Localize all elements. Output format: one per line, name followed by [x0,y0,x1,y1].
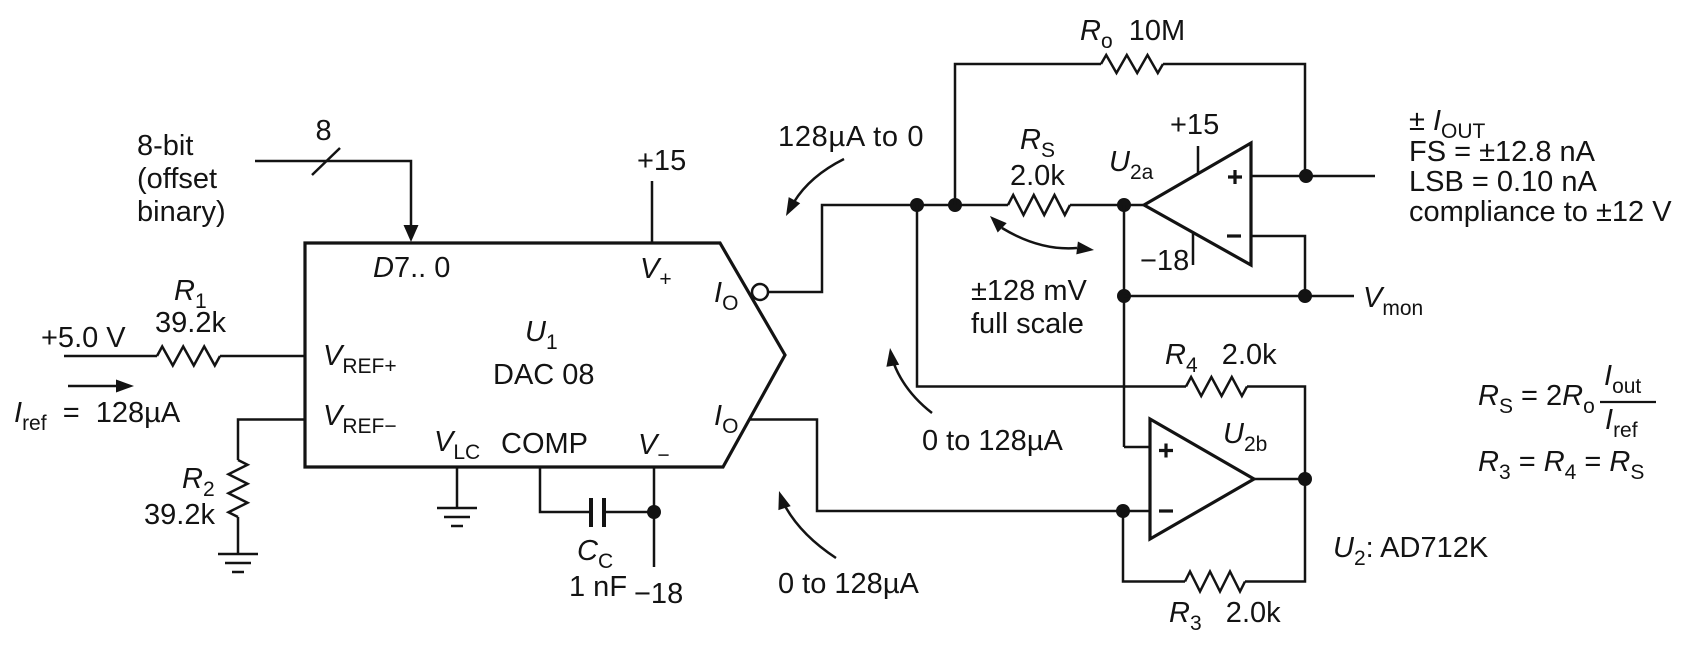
wire: Vmon vertical from U2a node [1124,205,1149,447]
op-amp U2b [1150,419,1254,539]
label R2 [182,463,215,501]
svg-text:full scale: full scale [971,308,1084,340]
ground (below VLC) [437,508,477,526]
pin label VREF- [323,400,397,438]
svg-text:39.2k: 39.2k [144,499,215,531]
junction: U2a inverting node [1117,198,1131,212]
svg-text:V+​: V+​ [640,253,672,291]
annotation arrow: 0 to 128uA (lower) [778,491,836,558]
wire: CC to V- node [606,511,654,514]
svg-text:−18: −18 [1140,245,1189,277]
svg-text:128µA to 0: 128µA to 0 [778,121,924,153]
wire: U2a + input to IOUT terminal [1251,175,1375,178]
svg-text:FS = ±12.8 nA: FS = ±12.8 nA [1409,136,1596,168]
wire: COMP pin to CC [540,467,589,512]
wire: VREF- pin to R2 [238,420,305,461]
label +/-128 mV [971,275,1088,307]
op-amp U2a (points left) [1144,143,1251,265]
pin label D7.. 0 [373,252,450,284]
resistor R1 39.2k [157,347,220,366]
wire: U2a - input to Vmon rail [1251,236,1305,296]
svg-text:+5.0 V: +5.0 V [41,322,126,354]
U2a + input marker [1228,170,1242,184]
resistor R2 39.2k [229,460,248,517]
label U1 [525,316,558,354]
wire: RS to U2a inverting node [1070,204,1143,207]
svg-text:IO​: IO​ [714,277,738,315]
wire: IO lower to U2b inverting input [749,420,1150,512]
wire: VLC pin to ground [456,467,459,508]
U2a -18 supply pin [1192,233,1195,265]
label Ro 10M [1080,15,1185,53]
pin label IO (lower) [714,400,738,438]
label full scale [971,308,1084,340]
label U2a [1109,146,1154,184]
svg-text:LSB = 0.10 nA: LSB = 0.10 nA [1409,166,1597,198]
svg-text:R3​ = R4​ = RS​: R3​ = R4​ = RS​ [1478,446,1644,484]
wire: Ro feedback branch (right) [1163,64,1305,176]
label Iref = 128uA [14,397,181,435]
svg-text:U1​: U1​ [525,316,558,354]
DAC U1 body (pentagon) [305,243,785,467]
svg-text:±128 mV: ±128 mV [971,275,1088,307]
label LSB = 0.10 nA [1409,166,1597,198]
svg-text:DAC 08: DAC 08 [493,359,595,391]
label Vmon [1363,282,1423,320]
svg-text:Ro​ 10M: Ro​ 10M [1080,15,1185,53]
label RS [1020,124,1055,162]
ground (below R2) [218,554,258,572]
svg-text:8-bit: 8-bit [137,130,193,162]
resistor RS 2.0k [1008,195,1070,215]
wire: IO upper to summing node [768,205,1008,292]
wire: U2b output [1254,478,1305,481]
junction: U2b inverting node [1116,504,1130,518]
label DAC 08 [493,359,595,391]
junction: U2b output node [1298,472,1312,486]
svg-text:+15: +15 [1170,109,1219,141]
pin label V+ [640,253,672,291]
label U2b [1223,418,1267,456]
label -18 (V- supply) [634,578,683,610]
label -18 (U2a) [1140,245,1189,277]
annotation arrow: 0 to 128uA (upper) [886,348,932,413]
label: +5.0 V [41,322,126,354]
label 1 nF [569,571,627,603]
U2a - input marker [1227,234,1241,237]
wire: node A to R4 [917,205,1186,387]
svg-text:R4​ 2.0k: R4​ 2.0k [1165,339,1277,377]
wire: V- pin to -18 supply [653,467,656,567]
junction: Ro/output node [1299,169,1313,183]
svg-text:VREF−​: VREF−​ [323,400,397,438]
svg-text:IO​: IO​ [714,400,738,438]
svg-text:R2​: R2​ [182,463,215,501]
label 2.0k (RS) [1010,160,1065,192]
annotation arrow: 128uA to 0 [786,159,844,216]
svg-text:RS​ = 2Ro​: RS​ = 2Ro​ [1478,380,1595,418]
junction: Vmon tap (right) [1298,289,1312,303]
equation R3 = R4 = RS [1478,446,1644,484]
junction node B (Ro tap) [948,198,962,212]
label CC [577,535,613,573]
label 0 to 128uA (upper) [922,425,1064,457]
capacitor CC 1 nF [591,498,604,527]
junction: V-/CC node [647,505,661,519]
wire: R3 to U2b output [1245,479,1305,582]
label +15 (U2a) [1170,109,1219,141]
label 39.2k (R1) [155,307,226,339]
wire: R4 to U2b output [1247,387,1305,480]
label 0 to 128uA (lower) [778,568,920,600]
svg-text:0 to 128µA: 0 to 128µA [922,425,1064,457]
svg-text:RS​: RS​ [1020,124,1055,162]
U2b + input marker [1159,444,1173,458]
wire: +5.0 V to R1 [64,355,157,358]
svg-text:CC​: CC​ [577,535,613,573]
svg-text:R3​ 2.0k: R3​ 2.0k [1169,597,1281,635]
resistor R4 2.0k [1186,377,1247,396]
U2b - input marker [1159,509,1173,512]
svg-text:U2b​: U2b​ [1223,418,1267,456]
label 128uA to 0 [778,121,924,153]
svg-text:VLC​: VLC​ [434,426,480,464]
resistor R3 2.0k [1185,572,1245,592]
label 39.2k (R2) [144,499,215,531]
svg-text:V−​: V−​ [638,429,670,467]
label +15 (V+ supply) [637,145,686,177]
svg-text:COMP: COMP [501,428,588,460]
pin label VREF+ [323,340,397,378]
svg-text:+15: +15 [637,145,686,177]
label FS = +/-12.8 nA [1409,136,1596,168]
svg-text:U2​: AD712K: U2​: AD712K [1333,532,1489,570]
U2a +15 supply pin [1197,146,1200,173]
wire: V+ pin to +15 supply [651,181,654,243]
equation RS = 2Ro Iout/Iref [1478,360,1656,442]
wire: Ro feedback branch (left+top) [955,64,1101,205]
wire: 8-bit data bus into D7..0 [255,161,419,242]
label: 8-bit (offset binary) [137,130,226,228]
svg-text:compliance to ±12 V: compliance to ±12 V [1409,196,1672,228]
current arrow Iref [68,380,134,393]
svg-text:Iref​ = 128µA: Iref​ = 128µA [14,397,181,435]
svg-text:0 to 128µA: 0 to 128µA [778,568,920,600]
wire: U2b inverting node to R3 [1123,511,1185,582]
svg-text:8: 8 [316,115,332,147]
wire: R2 to ground [237,517,240,554]
annotation double arrow: RS full-scale sense [990,216,1094,254]
svg-text:2.0k: 2.0k [1010,160,1065,192]
label R1 [174,275,207,313]
pin label IO (upper) [714,277,738,315]
pin label V- [638,429,670,467]
label: bus width 8 [316,115,332,147]
svg-text:Iout​: Iout​ [1604,360,1641,398]
wire: Vmon rail [1124,295,1354,298]
label +/- IOUT [1409,105,1486,143]
svg-text:D7.. 0: D7.. 0 [373,252,450,284]
svg-text:39.2k: 39.2k [155,307,226,339]
complement output bubble (IO upper) [752,284,768,300]
svg-text:Iref​: Iref​ [1605,404,1638,442]
junction: Vmon tap (left) [1117,289,1131,303]
junction node A (R4 tap) [910,198,924,212]
label R4 2.0k [1165,339,1277,377]
label compliance to +/-12 V [1409,196,1672,228]
pin label VLC [434,426,480,464]
svg-text:1 nF: 1 nF [569,571,627,603]
svg-text:binary): binary) [137,196,226,228]
svg-text:Vmon​: Vmon​ [1363,282,1423,320]
label U2: AD712K [1333,532,1489,570]
resistor Ro 10M [1101,55,1163,73]
svg-text:−18: −18 [634,578,683,610]
wire: R1 to VREF+ pin [220,355,305,358]
bus width slash [312,148,340,175]
svg-text:VREF+​: VREF+​ [323,340,397,378]
label R3 2.0k [1169,597,1281,635]
svg-text:U2a​: U2a​ [1109,146,1154,184]
svg-text:(offset: (offset [137,163,217,195]
pin label COMP [501,428,588,460]
